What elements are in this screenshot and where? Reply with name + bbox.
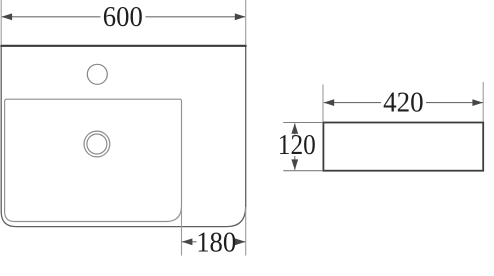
- dim 420 line right segment: [426, 102, 483, 104]
- dim 120 arrow down: [291, 159, 298, 170]
- side view body: [323, 123, 483, 171]
- svg-text:420: 420: [383, 88, 424, 119]
- dim 600 arrow left: [2, 13, 13, 20]
- dim 180 line left segment: [182, 241, 197, 243]
- dim 180 extension line right: [245, 207, 247, 256]
- dim 180 arrow right: [235, 238, 246, 245]
- svg-text:120: 120: [278, 130, 316, 161]
- svg-text:180: 180: [196, 227, 236, 258]
- dim 180 line right segment: [237, 241, 246, 243]
- drain outer circle: [84, 131, 110, 157]
- dim 600 line right segment: [146, 16, 246, 18]
- dim 120 extension line bottom: [283, 170, 323, 172]
- basin outer outline (top view): [1, 46, 246, 227]
- dim 120 extension line top: [283, 122, 323, 124]
- dim 420 arrow left: [324, 99, 335, 106]
- dim 120 arrow up: [291, 123, 298, 134]
- dim 120 line top segment: [294, 124, 296, 135]
- drain inner circle: [87, 134, 107, 154]
- basin front top edge: [0, 45, 246, 47]
- faucet hole: [87, 64, 107, 84]
- dim 600 extension line left: [0, 0, 2, 45]
- dim 180 arrow left: [182, 238, 193, 245]
- svg-text:600: 600: [103, 2, 143, 33]
- dim 420 arrow right: [472, 99, 483, 106]
- dim 420 extension line right: [482, 82, 484, 122]
- inner bowl outline: [5, 99, 182, 221]
- dim 180 extension line left: [181, 205, 183, 256]
- dim 420 line left segment: [324, 102, 381, 104]
- dim 420 extension line left: [322, 85, 324, 122]
- dim 120 line bottom segment: [294, 156, 296, 170]
- dim 600 extension line right: [245, 0, 247, 45]
- dim 600 line left segment: [2, 16, 101, 18]
- dim 600 arrow right: [235, 13, 246, 20]
